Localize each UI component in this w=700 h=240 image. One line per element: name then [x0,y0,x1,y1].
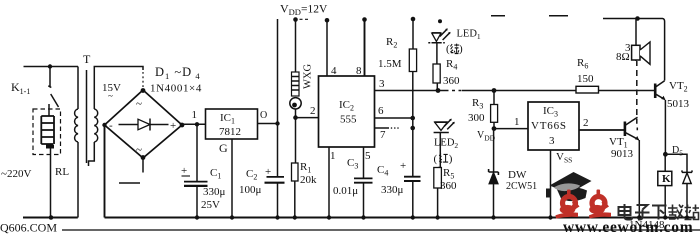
svg-text:360: 360 [440,180,457,192]
svg-text:150: 150 [577,73,594,85]
svg-text:360: 360 [443,75,460,87]
svg-text:DW: DW [508,169,527,181]
svg-text:100μ: 100μ [239,184,262,196]
svg-text:Q606.COM: Q606.COM [0,221,57,235]
svg-text:5013: 5013 [667,98,690,110]
svg-text:3: 3 [549,135,555,147]
svg-text:25V: 25V [201,199,220,211]
svg-text:T: T [83,52,91,66]
svg-text:330μ: 330μ [203,186,226,198]
svg-text:-: - [109,120,113,132]
svg-text:300: 300 [468,112,485,124]
svg-text:2: 2 [583,117,589,129]
svg-text:): ) [449,153,453,165]
svg-text:4: 4 [331,65,337,77]
svg-text:8: 8 [356,65,362,77]
svg-text:~: ~ [136,144,142,156]
svg-text:1N4001×4: 1N4001×4 [150,83,202,95]
svg-text:555: 555 [340,114,357,126]
svg-text:): ) [459,43,463,55]
svg-text:R3: R3 [472,97,483,111]
svg-text:LED1: LED1 [457,29,481,42]
svg-text:VT66S: VT66S [531,120,567,132]
svg-text:1: 1 [514,116,520,128]
svg-text:1: 1 [330,150,336,162]
svg-text:+: + [400,160,406,172]
svg-text:5: 5 [365,150,371,162]
svg-text:6: 6 [378,105,384,117]
svg-text:R4: R4 [446,58,457,72]
svg-text:R2: R2 [386,36,397,50]
svg-text:www.eeworm.com: www.eeworm.com [563,219,693,234]
svg-text:D1 ~D 4: D1 ~D 4 [155,65,201,81]
svg-text:(: ( [446,43,450,55]
svg-text:R6: R6 [577,57,588,71]
svg-text:C4: C4 [377,164,388,178]
svg-text:RL: RL [55,166,69,178]
svg-text:+: + [170,120,176,132]
svg-text:LED2: LED2 [434,138,458,151]
svg-text:2: 2 [310,105,316,117]
svg-text:C3: C3 [347,157,358,171]
svg-text:O: O [260,110,267,121]
svg-text:C1: C1 [210,167,221,181]
svg-text:330μ: 330μ [381,184,404,196]
svg-text:+: + [181,165,187,177]
svg-text:(: ( [434,153,438,165]
svg-text:20k: 20k [300,174,317,186]
svg-text:7: 7 [380,129,386,141]
svg-text:VSS: VSS [556,151,572,165]
svg-text:~: ~ [108,91,113,101]
svg-text:R1: R1 [300,161,311,175]
svg-text:C2: C2 [246,168,257,182]
svg-text:1.5M: 1.5M [378,58,402,70]
svg-text:VDD=12V: VDD=12V [280,2,328,18]
svg-text:K1-1: K1-1 [11,80,30,96]
svg-text:WXG: WXG [303,64,314,89]
svg-text:~220V: ~220V [1,168,31,180]
svg-text:9013: 9013 [611,148,634,160]
svg-text:VT2: VT2 [669,80,688,94]
svg-text:1: 1 [192,109,198,121]
svg-text:8Ω: 8Ω [616,51,630,63]
svg-text:~: ~ [136,98,142,110]
svg-text:+: + [265,166,271,178]
svg-text:G: G [219,141,228,155]
svg-text:2CW51: 2CW51 [506,181,537,192]
svg-text:D5: D5 [672,145,683,158]
svg-text:0.01μ: 0.01μ [333,185,358,197]
svg-text:K: K [662,173,671,185]
svg-text:R5: R5 [443,167,454,181]
svg-text:3: 3 [379,78,385,90]
svg-text:7812: 7812 [219,126,241,138]
